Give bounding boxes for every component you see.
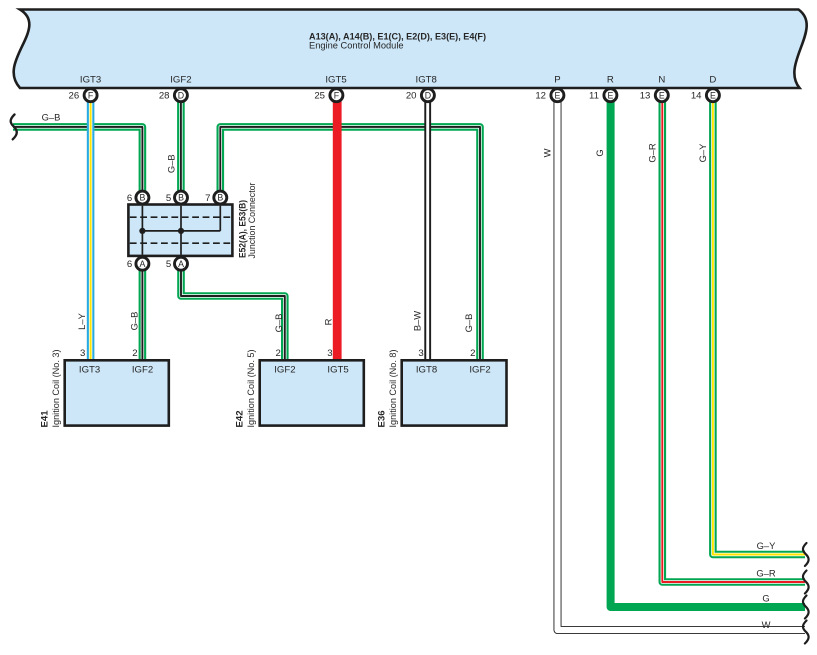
- svg-text:D: D: [425, 90, 431, 100]
- svg-text:F: F: [88, 90, 94, 100]
- svg-text:W: W: [541, 148, 552, 157]
- svg-text:D: D: [709, 75, 716, 86]
- svg-text:Ignition Coil (No. 3): Ignition Coil (No. 3): [51, 350, 61, 428]
- svg-text:IGT5: IGT5: [327, 364, 348, 375]
- svg-text:A: A: [178, 259, 184, 269]
- svg-text:G–B: G–B: [166, 154, 177, 173]
- svg-text:E: E: [710, 90, 716, 100]
- svg-text:2: 2: [470, 348, 475, 359]
- svg-text:3: 3: [80, 348, 85, 359]
- svg-text:G–Y: G–Y: [757, 540, 777, 551]
- svg-text:3: 3: [327, 348, 332, 359]
- svg-text:2: 2: [276, 348, 281, 359]
- svg-text:W: W: [762, 619, 771, 630]
- svg-text:B: B: [178, 193, 184, 203]
- svg-text:B–W: B–W: [412, 311, 423, 331]
- svg-text:A: A: [139, 259, 145, 269]
- svg-text:IGT8: IGT8: [416, 75, 437, 86]
- svg-text:IGT8: IGT8: [416, 364, 437, 375]
- svg-text:F: F: [334, 90, 340, 100]
- svg-text:G: G: [594, 149, 605, 156]
- svg-text:Ignition Coil (No. 5): Ignition Coil (No. 5): [246, 350, 256, 428]
- svg-text:6: 6: [127, 259, 132, 270]
- svg-text:Engine Control Module: Engine Control Module: [309, 41, 404, 51]
- svg-text:R: R: [607, 75, 614, 86]
- svg-text:IGT5: IGT5: [325, 75, 346, 86]
- svg-text:G–R: G–R: [756, 567, 776, 578]
- svg-text:25: 25: [314, 91, 325, 102]
- svg-text:20: 20: [406, 91, 417, 102]
- svg-text:G: G: [762, 593, 769, 604]
- svg-text:B: B: [217, 193, 223, 203]
- svg-text:E: E: [607, 90, 613, 100]
- svg-text:Ignition Coil (No. 8): Ignition Coil (No. 8): [388, 350, 398, 428]
- svg-text:IGF2: IGF2: [132, 364, 153, 375]
- svg-text:G–B: G–B: [463, 314, 474, 333]
- svg-text:E41: E41: [39, 410, 50, 428]
- svg-text:E42: E42: [234, 410, 245, 427]
- svg-text:G–R: G–R: [647, 143, 658, 163]
- svg-text:5: 5: [166, 259, 171, 270]
- svg-text:E: E: [554, 90, 560, 100]
- svg-text:3: 3: [418, 348, 423, 359]
- svg-text:G–Y: G–Y: [697, 143, 708, 163]
- svg-text:26: 26: [69, 91, 80, 102]
- svg-text:14: 14: [691, 91, 702, 102]
- svg-text:Junction Connector: Junction Connector: [247, 183, 257, 259]
- svg-text:IGT3: IGT3: [80, 75, 101, 86]
- svg-text:7: 7: [205, 193, 210, 204]
- svg-text:P: P: [554, 75, 560, 86]
- svg-text:G–B: G–B: [273, 314, 284, 333]
- svg-text:E36: E36: [376, 410, 387, 427]
- svg-text:L–Y: L–Y: [76, 312, 87, 329]
- svg-text:IGF2: IGF2: [469, 364, 490, 375]
- svg-text:6: 6: [127, 193, 132, 204]
- svg-text:D: D: [178, 90, 184, 100]
- svg-text:11: 11: [589, 91, 599, 102]
- svg-text:IGT3: IGT3: [79, 364, 100, 375]
- svg-text:12: 12: [535, 91, 546, 102]
- svg-text:R: R: [323, 318, 334, 325]
- svg-text:IGF2: IGF2: [274, 364, 295, 375]
- svg-text:G–B: G–B: [42, 112, 61, 123]
- svg-text:2: 2: [132, 348, 137, 359]
- svg-text:B: B: [139, 193, 145, 203]
- svg-text:G–B: G–B: [129, 312, 140, 331]
- svg-text:28: 28: [159, 91, 170, 102]
- svg-text:N: N: [658, 75, 665, 86]
- svg-text:E: E: [659, 90, 665, 100]
- svg-text:5: 5: [166, 193, 171, 204]
- svg-text:IGF2: IGF2: [170, 75, 191, 86]
- svg-text:13: 13: [640, 91, 651, 102]
